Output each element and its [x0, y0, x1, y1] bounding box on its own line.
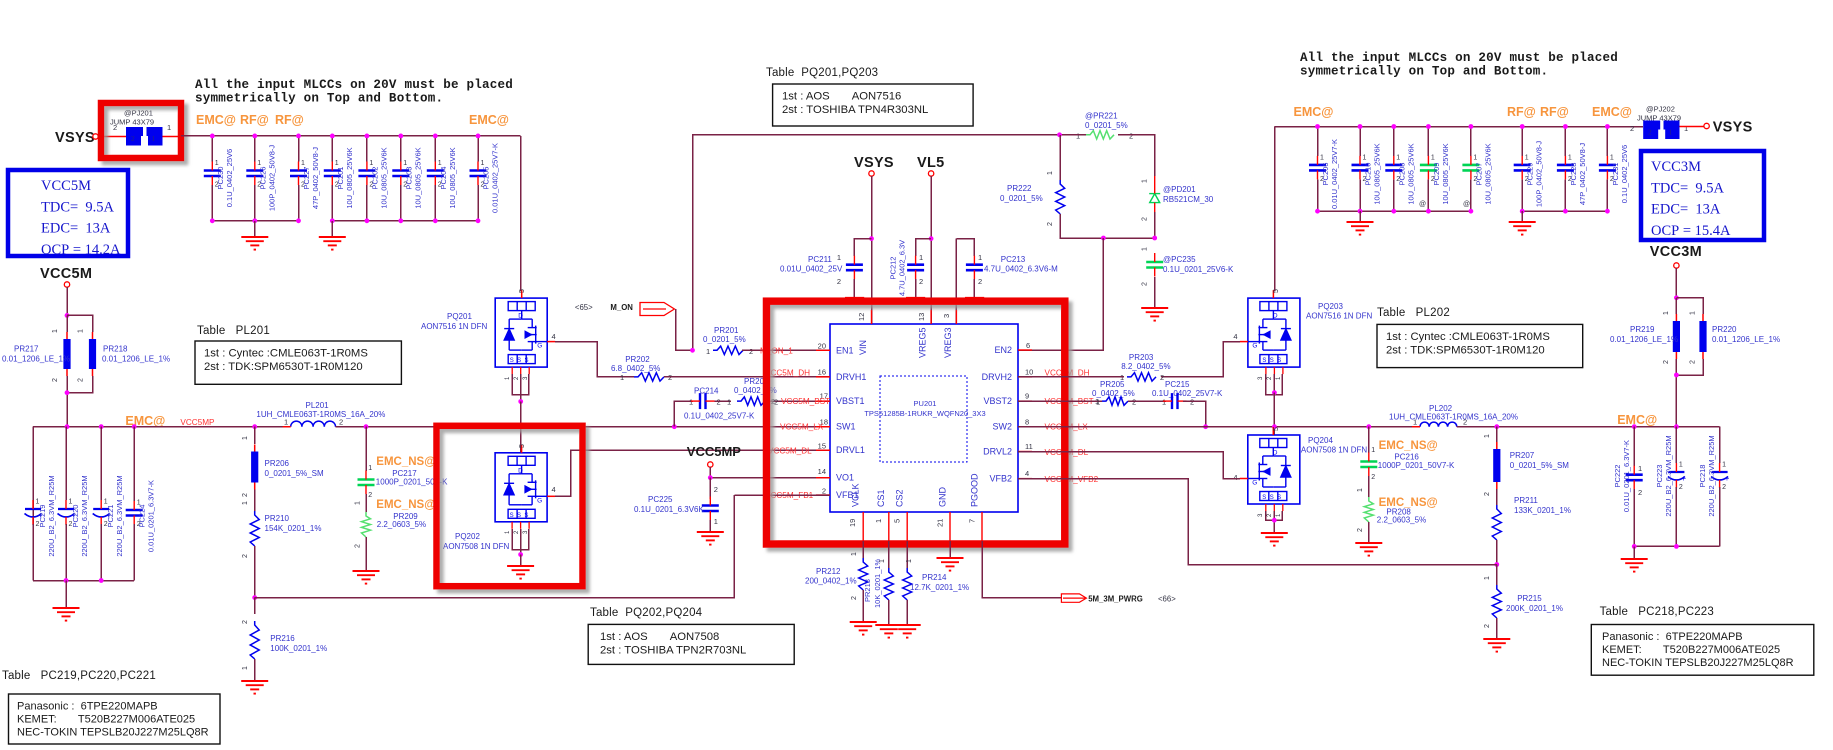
resistor PR216: [254, 598, 256, 614]
svg-text:VBST2: VBST2: [983, 396, 1012, 406]
svg-text:RB521CM_30: RB521CM_30: [1163, 195, 1214, 204]
svg-text:2: 2: [1371, 474, 1375, 481]
svg-text:PC219: PC219: [38, 505, 47, 528]
svg-text:2: 2: [242, 493, 249, 497]
capacitor PC204: [434, 136, 436, 162]
svg-text:JUMP 43X79: JUMP 43X79: [110, 118, 154, 127]
svg-text:+: +: [1725, 474, 1730, 483]
svg-text:1: 1: [284, 418, 288, 427]
capacitor PC217: [365, 427, 367, 471]
node VSYS (right): [1704, 123, 1709, 128]
svg-text:NEC-TOKIN TEPSLB20J227M25LQ8R: NEC-TOKIN TEPSLB20J227M25LQ8R: [1602, 657, 1794, 669]
wire VCC5MP rail left of inductor: [33, 426, 291, 428]
svg-text:PR212: PR212: [816, 567, 841, 576]
wire M_ON to EN1 row: [676, 309, 693, 350]
capacitor PC224: [133, 427, 135, 501]
svg-text:@PD201: @PD201: [1163, 185, 1196, 194]
IC right pin stubs: [1018, 349, 1032, 351]
transistor PQ203: [1248, 298, 1300, 367]
svg-text:1: 1: [368, 465, 372, 472]
svg-text:4: 4: [1233, 332, 1237, 341]
svg-text:4: 4: [1025, 469, 1029, 478]
wire SW node PQ201 to PQ202: [520, 402, 522, 453]
svg-text:VCC5M_LX: VCC5M_LX: [780, 423, 824, 432]
svg-text:1: 1: [1371, 447, 1375, 454]
svg-text:VCC5M_DL: VCC5M_DL: [768, 446, 812, 455]
svg-text:M_ON: M_ON: [610, 303, 633, 312]
svg-text:OCP = 14.2A: OCP = 14.2A: [41, 242, 121, 258]
svg-text:5M_3M_PWRG: 5M_3M_PWRG: [1088, 595, 1143, 604]
svg-text:PC212: PC212: [889, 257, 898, 280]
svg-text:5: 5: [1273, 427, 1280, 431]
svg-text:10U_0805_25V6K: 10U_0805_25V6K: [1441, 143, 1450, 204]
resistor PR209: [365, 494, 367, 512]
svg-text:D: D: [1273, 313, 1278, 320]
wire VSYS rail (right): [1275, 126, 1643, 128]
wire PL202 to EMC rail: [1457, 426, 1720, 428]
svg-text:1: 1: [1320, 154, 1324, 161]
wire cap bank bottom rail group2: [332, 220, 478, 222]
ground PR216: [254, 659, 256, 681]
wire EN2 drop: [1018, 238, 1103, 350]
ground at PC226: [254, 221, 256, 237]
wire PQ201 source pins join: [512, 374, 529, 395]
wire PJ202 to VSYS: [1680, 126, 1705, 128]
svg-text:DRVH1: DRVH1: [836, 372, 866, 382]
svg-text:All the input MLCCs on 20V mus: All the input MLCCs on 20V must be place…: [1300, 51, 1618, 65]
svg-text:RF@: RF@: [1540, 105, 1569, 119]
svg-text:0_0201_5%: 0_0201_5%: [1000, 194, 1043, 203]
wire VSYS to jumper: [98, 136, 126, 138]
svg-text:2: 2: [837, 277, 841, 286]
svg-text:0.1U_0402_25V7-K: 0.1U_0402_25V7-K: [684, 412, 755, 421]
svg-text:PC206: PC206: [1321, 163, 1330, 186]
svg-text:2st : TDK:SPM6530T-1R0M120: 2st : TDK:SPM6530T-1R0M120: [204, 361, 363, 373]
svg-text:3: 3: [942, 314, 951, 318]
wire VREG3 pin stub up: [955, 239, 957, 324]
svg-text:1: 1: [919, 253, 923, 262]
svg-text:1st : AOS AON7516: 1st : AOS AON7516: [782, 91, 901, 103]
svg-text:21: 21: [936, 519, 945, 527]
svg-text:PR216: PR216: [270, 634, 295, 643]
capacitor PC213: [956, 239, 974, 256]
capacitor PC227: [298, 136, 300, 162]
wire jumper to rail: [163, 136, 182, 138]
svg-text:PC210: PC210: [1364, 163, 1373, 186]
svg-text:1UH_CMLE063T-1R0MS_16A_20%: 1UH_CMLE063T-1R0MS_16A_20%: [256, 410, 385, 419]
svg-text:4: 4: [1233, 473, 1237, 482]
wire rail drop to PQ203 drain: [1274, 127, 1276, 292]
svg-text:VCC5MP: VCC5MP: [180, 418, 215, 427]
wire lower-left bank bottom rail: [33, 580, 134, 582]
svg-text:PR202: PR202: [625, 355, 650, 364]
ground IC GND pin: [949, 541, 951, 558]
svg-text:0_0402_5%: 0_0402_5%: [734, 386, 777, 395]
svg-text:EMC@: EMC@: [125, 414, 165, 428]
svg-text:PQ203: PQ203: [1318, 302, 1343, 311]
wire VCC5M down: [66, 287, 68, 315]
wire VBST1 hook from SW rail: [674, 401, 693, 427]
wire PQ202 source pins join: [512, 529, 529, 550]
svg-text:8: 8: [1025, 417, 1029, 426]
resistor PR213: [888, 541, 890, 568]
svg-text:220U_B2_6.3VM_R25M: 220U_B2_6.3VM_R25M: [1707, 435, 1716, 516]
ground at PC201: [331, 221, 333, 237]
resistor PR220: [1676, 298, 1703, 314]
capacitor PC230: [211, 136, 213, 162]
svg-text:1: 1: [369, 160, 373, 167]
svg-text:VBST1: VBST1: [836, 396, 865, 406]
svg-text:PC220: PC220: [71, 505, 80, 528]
svg-text:VCLK: VCLK: [851, 483, 861, 507]
svg-text:VFB2: VFB2: [989, 474, 1012, 484]
capacitor PC211: [854, 239, 871, 256]
svg-text:PGOOD: PGOOD: [970, 473, 980, 507]
svg-text:VCC5M_DH: VCC5M_DH: [765, 369, 810, 378]
svg-text:1: 1: [1484, 434, 1491, 438]
svg-text:2: 2: [1663, 360, 1670, 364]
capacitor PC225: [709, 478, 711, 499]
capacitor PC216: [1368, 427, 1370, 453]
svg-text:@PJ201: @PJ201: [124, 109, 153, 118]
wire PQ203 source pins join: [1266, 374, 1283, 395]
svg-text:1: 1: [1690, 311, 1697, 315]
wire loop bottom rail: [1060, 214, 1155, 238]
svg-text:PC221: PC221: [106, 505, 115, 528]
wire PR204 to IC VBST1: [769, 400, 830, 402]
svg-text:4.7U_0402_6.3V: 4.7U_0402_6.3V: [898, 240, 907, 296]
svg-text:1: 1: [403, 160, 407, 167]
capacitor PC208: [1393, 127, 1395, 157]
svg-text:2: 2: [1129, 132, 1133, 141]
resistor PR219: [1675, 298, 1677, 314]
svg-text:PR218: PR218: [103, 345, 128, 354]
ground PR209: [365, 537, 367, 571]
svg-text:1: 1: [1142, 179, 1149, 183]
svg-text:5: 5: [519, 289, 526, 293]
IC left pin stubs: [816, 349, 830, 351]
svg-text:VCC5M: VCC5M: [41, 178, 91, 194]
svg-text:SSS: SSS: [1262, 358, 1284, 364]
feedback wire VFB2 bottom: [1018, 479, 1497, 565]
resistor PR218: [67, 315, 93, 332]
svg-text:<66>: <66>: [1158, 595, 1176, 604]
ground PR208: [1368, 522, 1370, 543]
svg-text:5: 5: [893, 519, 902, 523]
svg-text:220U_B2_6.3VM_R25M: 220U_B2_6.3VM_R25M: [1664, 435, 1673, 516]
svg-text:PR205: PR205: [1100, 380, 1125, 389]
svg-text:1: 1: [242, 501, 249, 505]
svg-text:154K_0201_1%: 154K_0201_1%: [265, 524, 322, 533]
info box VCC5M current limits: [8, 170, 128, 256]
wire lower-left bank left edge: [32, 427, 34, 581]
svg-text:2: 2: [368, 492, 372, 499]
IC top pin stubs: [871, 310, 873, 324]
svg-text:47P_0402_50V8-J: 47P_0402_50V8-J: [1578, 143, 1587, 205]
capacitor PC229: [1521, 127, 1523, 157]
wire VCC5MP rail right of inductor to IC SW1: [336, 426, 831, 428]
svg-text:1: 1: [1684, 124, 1688, 133]
svg-text:PR215: PR215: [1517, 594, 1542, 603]
wire IC DRVH2 to PR203: [1018, 376, 1124, 378]
svg-text:1: 1: [1396, 154, 1400, 161]
svg-text:2: 2: [1484, 624, 1491, 628]
svg-text:1: 1: [1357, 488, 1364, 492]
svg-text:VSYS: VSYS: [854, 155, 894, 171]
svg-text:PQ204: PQ204: [1308, 436, 1333, 445]
svg-text:1: 1: [242, 436, 249, 440]
svg-text:KEMET: T520B227M006ATE02: KEMET: T520B227M006ATE025: [1602, 644, 1780, 656]
svg-text:PC231: PC231: [1611, 163, 1620, 186]
svg-text:PR201: PR201: [714, 326, 739, 335]
svg-text:1: 1: [1722, 462, 1726, 469]
svg-text:PC229: PC229: [1526, 163, 1535, 186]
svg-text:VSYS: VSYS: [1713, 120, 1753, 136]
svg-text:PC205: PC205: [482, 167, 491, 190]
wire VCC3M down: [1675, 268, 1677, 298]
highlight box around PJ201: [101, 103, 181, 158]
svg-text:1: 1: [1431, 154, 1435, 161]
ground PR213: [888, 600, 890, 625]
svg-text:1: 1: [837, 253, 841, 262]
wire lower right bank bottom rail: [1634, 545, 1719, 547]
svg-text:2.2_0603_5%: 2.2_0603_5%: [1377, 516, 1426, 525]
inductor PL201: [291, 421, 336, 427]
svg-text:PC207: PC207: [1474, 163, 1483, 186]
svg-text:KEMET: T520B227M006ATE02: KEMET: T520B227M006ATE025: [17, 714, 195, 726]
svg-text:1: 1: [978, 253, 982, 262]
svg-text:133K_0201_1%: 133K_0201_1%: [1514, 506, 1571, 515]
svg-text:PC218: PC218: [1698, 465, 1707, 488]
svg-text:1: 1: [104, 499, 108, 506]
resistor PR215: [1496, 565, 1498, 586]
svg-text:2: 2: [1142, 217, 1149, 221]
svg-text:4.7U_0402_6.3V6-M: 4.7U_0402_6.3V6-M: [984, 265, 1058, 274]
svg-text:RF@: RF@: [275, 113, 304, 127]
svg-text:2: 2: [717, 398, 721, 407]
svg-text:Table PL201: Table PL201: [197, 325, 270, 337]
connector M_ON input: [640, 303, 674, 316]
svg-text:1: 1: [1162, 398, 1166, 407]
ground PC225: [709, 520, 711, 532]
jumper PJ201: [126, 127, 163, 146]
svg-text:1: 1: [714, 517, 718, 526]
ground right bank group1: [1359, 211, 1361, 222]
svg-text:10U_0805_25V6K: 10U_0805_25V6K: [1373, 143, 1382, 204]
svg-text:1: 1: [689, 398, 693, 407]
inductor PL202: [1420, 422, 1457, 427]
svg-text:PR210: PR210: [265, 514, 290, 523]
svg-text:SW1: SW1: [836, 422, 856, 432]
svg-text:1: 1: [1669, 128, 1673, 137]
svg-text:TDC= 9.5A: TDC= 9.5A: [1651, 180, 1725, 196]
svg-text:RF@: RF@: [240, 113, 269, 127]
ground PC235: [1154, 277, 1156, 308]
svg-text:1st : AOS AON7508: 1st : AOS AON7508: [600, 631, 719, 643]
svg-text:PC215: PC215: [1165, 380, 1190, 389]
wire PR210 to feedback node: [254, 546, 256, 598]
svg-text:2: 2: [978, 277, 982, 286]
capacitor PC228: [1564, 127, 1566, 157]
svg-text:1: 1: [706, 347, 710, 356]
svg-text:100P_0402_50V8-J: 100P_0402_50V8-J: [267, 145, 276, 212]
IC bottom pin stubs: [862, 512, 864, 541]
op-amp U1 controller PU201 TPS51285B: [830, 324, 1018, 512]
svg-text:5: 5: [1273, 289, 1280, 293]
svg-text:1: 1: [879, 559, 886, 563]
wire right bank bottom rail group1: [1318, 210, 1471, 212]
svg-text:2: 2: [771, 397, 775, 406]
svg-text:2.2_0603_5%: 2.2_0603_5%: [377, 520, 426, 529]
svg-text:2: 2: [1484, 492, 1491, 496]
svg-text:1: 1: [152, 134, 156, 143]
resistor PR222: [1059, 135, 1061, 180]
svg-text:<65>: <65>: [575, 303, 593, 312]
wire VFB1 to left: [734, 494, 830, 496]
svg-text:EMC@: EMC@: [196, 113, 236, 127]
resistor PR214: [906, 541, 908, 568]
svg-text:1: 1: [620, 373, 624, 382]
svg-text:10U_0805_25V6K: 10U_0805_25V6K: [345, 147, 354, 208]
capacitor PC202: [366, 136, 368, 162]
svg-text:13: 13: [917, 313, 926, 321]
svg-text:TPS51285B-1RUKR_WQFN20_3X3: TPS51285B-1RUKR_WQFN20_3X3: [864, 409, 985, 418]
svg-text:VCC3M: VCC3M: [1650, 244, 1702, 260]
svg-text:1: 1: [1076, 132, 1080, 141]
wire PR201 to EN1: [742, 349, 830, 351]
svg-text:PC202: PC202: [370, 167, 379, 190]
svg-text:1: 1: [52, 329, 59, 333]
wire SW2 rail: [1018, 426, 1420, 428]
svg-text:2: 2: [1690, 360, 1697, 364]
wire PQ203 gate from PR203: [1161, 342, 1240, 377]
capacitor PC223: [1675, 427, 1677, 463]
resistor PR211: [1496, 489, 1498, 505]
svg-text:2: 2: [749, 347, 753, 356]
wire PGOOD to connector: [982, 541, 1061, 598]
capacitor PC210: [1359, 127, 1361, 157]
svg-text:PC223: PC223: [1655, 465, 1664, 488]
capacitor PC206: [1317, 127, 1319, 157]
svg-text:7: 7: [968, 519, 977, 523]
svg-text:PR203: PR203: [1129, 353, 1154, 362]
svg-text:1: 1: [727, 398, 731, 407]
svg-text:2: 2: [1357, 528, 1364, 532]
svg-text:+: +: [1681, 474, 1686, 483]
transistor PQ201: [495, 298, 547, 367]
svg-text:G: G: [537, 497, 542, 504]
svg-text:Table PQ202,PQ204: Table PQ202,PQ204: [590, 607, 703, 619]
svg-text:PC224: PC224: [138, 505, 147, 528]
capacitor PC220: [65, 427, 67, 500]
resistor PR207: [1496, 427, 1498, 442]
resistor PR217: [66, 315, 68, 332]
ground PR215: [1496, 618, 1498, 639]
svg-text:AON7516 1N DFN: AON7516 1N DFN: [1306, 312, 1372, 321]
svg-text:CS2: CS2: [895, 489, 905, 507]
capacitor PC212: [916, 239, 932, 256]
svg-text:1: 1: [215, 160, 219, 167]
svg-text:0.01U_0402_25V7-K: 0.01U_0402_25V7-K: [491, 143, 500, 213]
wire VSYS to VIN: [871, 176, 873, 324]
svg-text:EMC@: EMC@: [1592, 105, 1632, 119]
wire VSYS rail (left): [181, 135, 521, 137]
svg-text:PR207: PR207: [1510, 451, 1535, 460]
resistor PR206: [254, 427, 256, 444]
svg-text:0.01U_0402_25V7-K: 0.01U_0402_25V7-K: [1330, 139, 1339, 209]
svg-text:0.01_1206_LE_1%: 0.01_1206_LE_1%: [1610, 335, 1678, 344]
svg-text:19: 19: [848, 519, 857, 527]
svg-text:PC208: PC208: [1397, 163, 1406, 186]
svg-text:VIN: VIN: [858, 340, 868, 355]
svg-text:2: 2: [919, 277, 923, 286]
svg-text:0.01_1206_LE_1%: 0.01_1206_LE_1%: [2, 355, 70, 364]
svg-text:@: @: [1419, 201, 1426, 208]
transistor PQ202: [495, 453, 547, 522]
svg-text:1: 1: [354, 501, 361, 505]
svg-text:EMC@: EMC@: [469, 113, 509, 127]
ground lower right bank: [1633, 546, 1635, 559]
svg-text:1: 1: [438, 160, 442, 167]
svg-text:2: 2: [822, 487, 826, 496]
svg-text:VCC5M_BST: VCC5M_BST: [781, 397, 830, 406]
svg-text:VO1: VO1: [836, 473, 854, 483]
svg-text:2: 2: [1160, 373, 1164, 382]
svg-text:2: 2: [242, 554, 249, 558]
svg-text:1: 1: [1363, 154, 1367, 161]
svg-text:220U_B2_6.3VM_R25M: 220U_B2_6.3VM_R25M: [80, 475, 89, 556]
svg-text:12.7K_0201_1%: 12.7K_0201_1%: [910, 583, 969, 592]
svg-text:2: 2: [1648, 128, 1652, 137]
wire VL5 to VREG5: [930, 176, 932, 324]
svg-text:symmetrically on Top and Botto: symmetrically on Top and Bottom.: [1300, 65, 1548, 79]
svg-text:RF@: RF@: [1507, 105, 1536, 119]
svg-text:VCC3M_VFB2: VCC3M_VFB2: [1045, 475, 1099, 484]
svg-text:Table PC218,PC223: Table PC218,PC223: [1600, 606, 1714, 618]
svg-text:SSS: SSS: [1262, 495, 1284, 501]
svg-text:TDC= 9.5A: TDC= 9.5A: [41, 199, 115, 215]
highlight box around PU201: [767, 301, 1065, 544]
svg-text:PC226: PC226: [258, 167, 267, 190]
svg-text:PR217: PR217: [14, 345, 39, 354]
svg-text:PR206: PR206: [265, 459, 290, 468]
wire PQ202 gate to IC DRVL1: [555, 450, 830, 496]
wire PQ201 gate to PR202: [555, 342, 634, 377]
svg-text:1: 1: [1142, 247, 1149, 251]
svg-text:2: 2: [1722, 484, 1726, 491]
wire PR202 to IC DRVH1: [664, 376, 830, 378]
wire PD201 down to loop bottom: [1154, 212, 1156, 238]
svg-text:PC227: PC227: [302, 167, 311, 190]
svg-text:0_0201_5%: 0_0201_5%: [703, 335, 746, 344]
svg-text:0.01U_0201_6.3V7-K: 0.01U_0201_6.3V7-K: [1622, 440, 1631, 512]
svg-text:EDC= 13A: EDC= 13A: [1651, 202, 1721, 218]
svg-text:10U_0805_25V6K: 10U_0805_25V6K: [1406, 143, 1415, 204]
svg-text:47P_0402_50V8-J: 47P_0402_50V8-J: [311, 147, 320, 209]
svg-text:10U_0805_25V6K: 10U_0805_25V6K: [413, 147, 422, 208]
capacitor PC205: [477, 136, 479, 162]
capacitor PC222: [1633, 427, 1635, 466]
svg-text:VREG3: VREG3: [943, 327, 953, 358]
svg-text:EMC@: EMC@: [1294, 105, 1334, 119]
highlight box around PQ202: [437, 426, 583, 586]
svg-text:EMC@: EMC@: [1617, 413, 1657, 427]
wire PC214 to PR204: [715, 400, 732, 402]
svg-text:PC211: PC211: [808, 255, 832, 264]
svg-text:10K_0201_1%: 10K_0201_1%: [873, 558, 882, 608]
svg-text:PL201: PL201: [306, 401, 330, 410]
svg-text:2: 2: [52, 378, 59, 382]
